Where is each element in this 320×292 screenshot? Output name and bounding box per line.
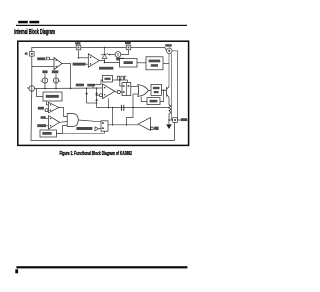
wire: U2 output to TSD block (99, 61, 119, 63)
wire: node to ground arrow (168, 120, 170, 124)
value label 1.25V REF (99, 67, 113, 70)
junction loop b (126, 124, 128, 126)
block R2 box (147, 98, 160, 105)
oscillator discharge network wires (87, 88, 97, 107)
pin circle P7 (Vcc) (167, 48, 173, 54)
junction D1 anode (104, 62, 106, 64)
diode D2 (85, 92, 88, 94)
header rule (16, 25, 187, 26)
block OSC text (105, 78, 111, 80)
wire: clock into FF1 top (127, 80, 129, 83)
op-amp U2 (88, 54, 99, 68)
transistor Q1 (161, 87, 169, 98)
wire: I1 to pin P3 stub (121, 50, 129, 55)
wire: PB row long run (56, 132, 104, 134)
footer rule (16, 266, 187, 268)
pin P8 number (174, 119, 176, 121)
junction Q1 base wire (163, 89, 165, 91)
value label 1.4V (76, 84, 84, 87)
block PB text (42, 132, 51, 135)
wire: clock branch to FF1 left (120, 80, 122, 86)
wire: U1 output down to mid rail (62, 64, 71, 89)
diode D4 (95, 99, 98, 101)
wire: U4 output to gate G2 (59, 108, 67, 117)
junction P4/rail (44, 88, 46, 90)
wire: ground node to frame (169, 119, 188, 121)
wire: supply rail x=171.5 (171, 54, 173, 120)
block UVLO (146, 57, 163, 70)
pin P8 name label GND (181, 118, 187, 121)
pin P2 name label (75, 42, 80, 44)
wire: U3 inverting input (97, 94, 100, 96)
IC outline frame (18, 41, 189, 145)
junction at P2 branch (78, 57, 80, 59)
wire: into current source I1 (108, 54, 115, 56)
wire: U5 output to gate G2 (60, 121, 68, 124)
block BGR (43, 92, 62, 101)
wire: top rail into pin 7 (163, 48, 167, 51)
wire: P5 stub (55, 74, 57, 78)
block BGR text (46, 95, 59, 98)
U5 lower input label (37, 124, 46, 127)
block DRV (151, 84, 161, 95)
block DRV text line 1 (153, 87, 160, 89)
wire: latch loop vertical a (112, 108, 114, 125)
junction U3 drop on sense net (108, 107, 110, 109)
wire: G2 output to latch (78, 120, 101, 122)
wire: P4 stub (44, 74, 46, 78)
wire: U5 upper input (46, 117, 49, 119)
block DRV text line 2 (154, 91, 159, 93)
wire: top Vcc rail (32, 48, 163, 89)
wire: latch loop vertical b (127, 94, 134, 125)
wire: BGR to U4 top input (46, 101, 48, 105)
svg-text:Figure 2. Functional Block Dia: Figure 2. Functional Block Diagram of KA… (60, 151, 133, 157)
net label PWM (76, 127, 92, 130)
PWM arrow glyph (95, 127, 99, 131)
inverter U6 (138, 118, 158, 131)
pin circle P5 (RT) (53, 78, 60, 83)
junction U1 output/rail (70, 88, 72, 90)
block TSD text (124, 61, 133, 64)
wire: U2 lower input (86, 63, 89, 65)
junction discharge b/rail (96, 87, 98, 89)
junction sense net at R1 (168, 107, 170, 109)
logo word 2 (29, 21, 39, 24)
wire: TSD to UVLO (137, 62, 146, 64)
junction loop a on sense net (112, 107, 114, 109)
value label 4.5k (87, 84, 95, 87)
ground arrow (166, 124, 172, 129)
comparator U3 (99, 84, 114, 99)
flip-flop FF1 (122, 83, 131, 96)
wire: BGR to mid rail (37, 89, 44, 97)
pin P3 number (128, 47, 130, 49)
label REFF (37, 57, 45, 60)
junction on I1 wire (109, 54, 111, 56)
wire: U3 output (115, 91, 117, 93)
zener diode D1 (101, 48, 108, 63)
resistor R1 (169, 105, 171, 115)
wire: OSC output (113, 79, 128, 81)
block PB (40, 130, 56, 137)
comparator U5 (49, 116, 60, 129)
wire: FF1 Q to G1 (131, 86, 139, 88)
junction P5/rail (55, 88, 57, 90)
block TSD (120, 59, 138, 67)
junction on clock wire (119, 79, 121, 81)
junction U3 input node (96, 94, 98, 96)
pin P2 number (78, 47, 80, 49)
wire: P5 to mid rail (55, 83, 57, 88)
junction ground node (168, 119, 170, 121)
pin P7 name label Vcc (165, 44, 172, 46)
wire: P2 to U2 upper input (79, 57, 89, 59)
wire: R1 to ground node (168, 116, 170, 121)
pin square P2 (76, 45, 81, 50)
wire: G1 bottom to feedback box (141, 97, 147, 102)
wire: mid rail (35, 87, 103, 90)
wire: U5 lower input (46, 125, 48, 127)
page number 2 (15, 269, 18, 273)
pin square P3 (126, 45, 131, 50)
pin P5 name label (52, 70, 59, 73)
comparator U4 (49, 102, 59, 113)
junction discharge bottom (96, 102, 98, 104)
pin square P8 (GND) (173, 118, 178, 123)
svg-text:Internal Block Diagram: Internal Block Diagram (14, 29, 55, 36)
wire: latch bottom stub (104, 131, 106, 133)
pin P7 number (168, 50, 170, 52)
label REFF input marker (47, 57, 50, 60)
pin P1 number (31, 53, 33, 55)
wire: U6 output to latch (108, 124, 138, 126)
block UVLO text line 2 (151, 64, 158, 67)
inverter bubble B1 (117, 90, 120, 93)
pin P1 name label (25, 53, 28, 55)
pin P3 name label (125, 42, 131, 44)
gate G2 (AND) (67, 114, 78, 127)
wire: UVLO to rails (163, 62, 169, 64)
wire: U3 body drop (108, 99, 110, 108)
diode D3 (95, 92, 98, 94)
junction loop a (112, 124, 114, 126)
wire: PB output to G2 bottom input (56, 125, 67, 133)
junction D1 cathode on rail (104, 47, 106, 49)
clock waveform glyph (117, 76, 126, 80)
junction discharge a/rail (86, 88, 88, 90)
wire: current sense net (97, 107, 170, 109)
block latch L1 (101, 121, 108, 131)
junction loop b on sense net (132, 107, 134, 109)
wire: bubble to FF1 (120, 91, 122, 93)
wire: PWM into latch (99, 128, 101, 130)
pin square P1 (30, 52, 35, 57)
wire: U1 upper input (50, 59, 54, 61)
wire: U1 lower input from left bus (32, 66, 54, 68)
label 1.25V REF (net into U2) (73, 63, 86, 66)
current source I1 (115, 52, 121, 58)
U4 input label (38, 107, 44, 110)
pin P4 name label (42, 70, 47, 73)
wire: G1 output to driver (148, 90, 151, 92)
wire: Q1 emitter down (168, 97, 170, 105)
wire: label to bubble (43, 109, 46, 111)
block R2 box text (150, 100, 158, 103)
wire: P4 to mid rail (44, 83, 46, 88)
logo word 1 (18, 21, 28, 24)
U4 input bubble (45, 109, 48, 112)
wire: OSC to mid rail (93, 80, 103, 88)
pin circle P4 (CT) (41, 78, 48, 83)
wire: G1 lower input (133, 93, 139, 95)
op-amp U1 (54, 58, 62, 70)
U5 upper input label (41, 116, 46, 119)
wire: left bus down and bottom ground return (31, 89, 175, 141)
gate G1 (NOR) (138, 85, 149, 97)
wire: pin P2 stub down (78, 50, 80, 58)
wire: Vcc pin to right drop x=177.5 (172, 51, 177, 120)
capacitor C1 (121, 105, 123, 111)
wire: collector rail x=169 (168, 54, 170, 87)
block OSC (103, 75, 113, 82)
block UVLO text line 1 (149, 60, 161, 63)
pin circle P6 on left bus (27, 86, 34, 92)
net label Vref (116, 58, 124, 61)
wire: feedback box to Q1 base node (160, 90, 164, 101)
